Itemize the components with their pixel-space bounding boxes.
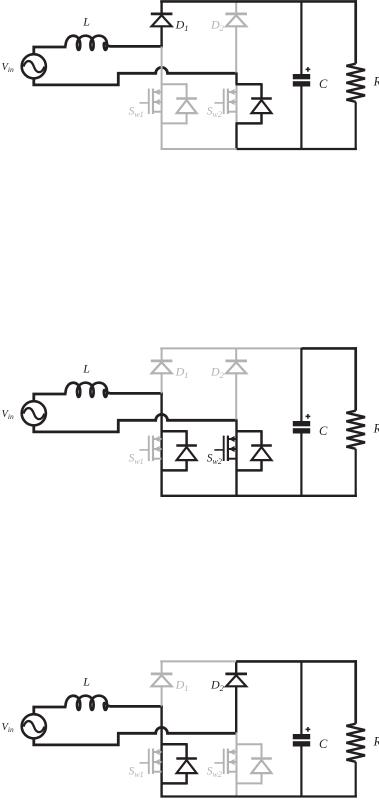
- plus polarity mark: [306, 727, 311, 732]
- top rail wire: [160, 0, 357, 3]
- wire Sw2 drain-source line: [235, 72, 237, 84]
- diode D1: [151, 348, 173, 393]
- bottom rail wire: [161, 795, 357, 797]
- inductor L: [66, 36, 112, 50]
- wire node A vertical (D1 anode / Sw1 drain-source line): [160, 705, 162, 797]
- body diode of Sw2: [236, 83, 272, 124]
- MOSFET Sw2: [214, 749, 236, 774]
- AC source Vin: [22, 401, 46, 425]
- wire Vin bottom return with crossover hop: [34, 727, 237, 745]
- MOSFET Sw1: [140, 436, 162, 461]
- diode D2: [225, 1, 247, 74]
- diode D2: [225, 661, 247, 734]
- svg-text:L: L: [82, 15, 90, 29]
- resistor R: [346, 660, 365, 797]
- diode D1: [151, 661, 173, 706]
- capacitor C: [293, 348, 310, 497]
- inductor L: [66, 696, 112, 710]
- wire Vin bottom return with crossover hop: [34, 414, 237, 432]
- svg-text:C: C: [319, 77, 328, 91]
- resistor R: [346, 347, 365, 497]
- AC source Vin: [22, 714, 46, 738]
- body diode of Sw2: [236, 743, 272, 784]
- diode D1: [151, 1, 173, 46]
- svg-text:L: L: [82, 675, 90, 689]
- body diode of Sw2: [236, 430, 272, 471]
- top rail wire: [160, 660, 236, 662]
- svg-text:C: C: [319, 424, 328, 438]
- MOSFET Sw1: [140, 749, 162, 774]
- plus polarity mark: [306, 414, 311, 419]
- body diode of Sw1: [161, 83, 197, 124]
- svg-text:L: L: [82, 362, 90, 376]
- diode D2: [225, 348, 247, 421]
- svg-text:R: R: [373, 734, 379, 748]
- AC source Vin: [22, 54, 46, 78]
- plus polarity mark: [306, 67, 311, 72]
- wire Vin top lead to inductor: [34, 394, 67, 402]
- bottom rail wire: [161, 495, 357, 497]
- resistor R: [346, 0, 365, 150]
- wire node A vertical (D1 anode / Sw1 drain-source line): [161, 45, 163, 150]
- wire Sw2 drain-source line: [236, 732, 238, 797]
- svg-text:C: C: [319, 737, 328, 751]
- wire Vin bottom return with crossover hop: [34, 67, 237, 85]
- wire inductor to node A: [111, 705, 163, 708]
- wire inductor to node A: [111, 392, 163, 395]
- wire Vin top lead to inductor: [34, 707, 67, 715]
- capacitor C: [293, 1, 310, 150]
- bottom rail wire: [161, 148, 238, 150]
- MOSFET Sw2: [214, 89, 236, 114]
- wire Sw2 drain-source line: [235, 419, 237, 496]
- MOSFET Sw1: [140, 89, 162, 114]
- body diode of Sw1: [161, 430, 197, 471]
- wire Vin top lead to inductor: [34, 47, 67, 55]
- MOSFET Sw2: [214, 436, 236, 461]
- top rail wire: [160, 347, 301, 349]
- wire inductor to node A: [111, 45, 163, 48]
- wire node A vertical (D1 anode / Sw1 drain-source line): [160, 392, 162, 497]
- inductor L: [66, 383, 112, 397]
- body diode of Sw1: [161, 743, 197, 784]
- capacitor C: [293, 661, 310, 798]
- svg-text:R: R: [373, 421, 379, 435]
- svg-text:R: R: [373, 74, 379, 88]
